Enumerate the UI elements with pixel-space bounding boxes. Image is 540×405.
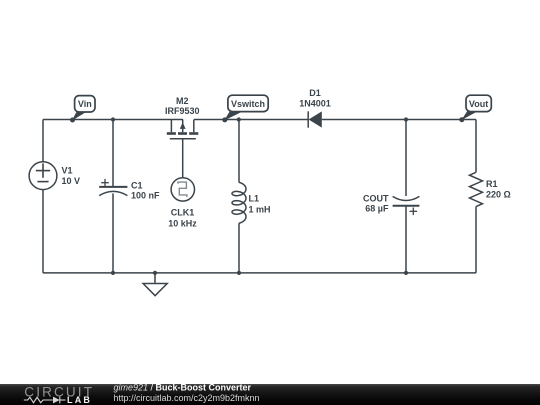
svg-text:220 Ω: 220 Ω [486, 190, 511, 200]
svg-text:10 V: 10 V [62, 176, 81, 186]
svg-text:V1: V1 [62, 165, 73, 175]
svg-text:10 kHz: 10 kHz [168, 218, 197, 228]
svg-text:68 µF: 68 µF [365, 204, 389, 214]
svg-text:IRF9530: IRF9530 [165, 106, 200, 116]
svg-text:COUT: COUT [363, 194, 389, 204]
svg-text:M2: M2 [176, 96, 189, 106]
svg-text:100 nF: 100 nF [131, 191, 160, 201]
svg-text:LAB: LAB [67, 395, 92, 405]
svg-text:1 mH: 1 mH [249, 204, 271, 214]
svg-text:C1: C1 [131, 181, 143, 191]
svg-text:R1: R1 [486, 179, 498, 189]
svg-text:Vout: Vout [469, 99, 488, 109]
svg-text:Vin: Vin [78, 99, 92, 109]
svg-text:D1: D1 [309, 88, 321, 98]
svg-text:1N4001: 1N4001 [299, 98, 331, 108]
svg-text:Vswitch: Vswitch [231, 99, 265, 109]
svg-text:http://circuitlab.com/c2y2m9b2: http://circuitlab.com/c2y2m9b2fmknn [114, 393, 260, 403]
svg-text:gime921 / Buck-Boost Converter: gime921 / Buck-Boost Converter [114, 383, 252, 393]
svg-text:L1: L1 [249, 193, 260, 203]
svg-text:CLK1: CLK1 [171, 207, 195, 217]
